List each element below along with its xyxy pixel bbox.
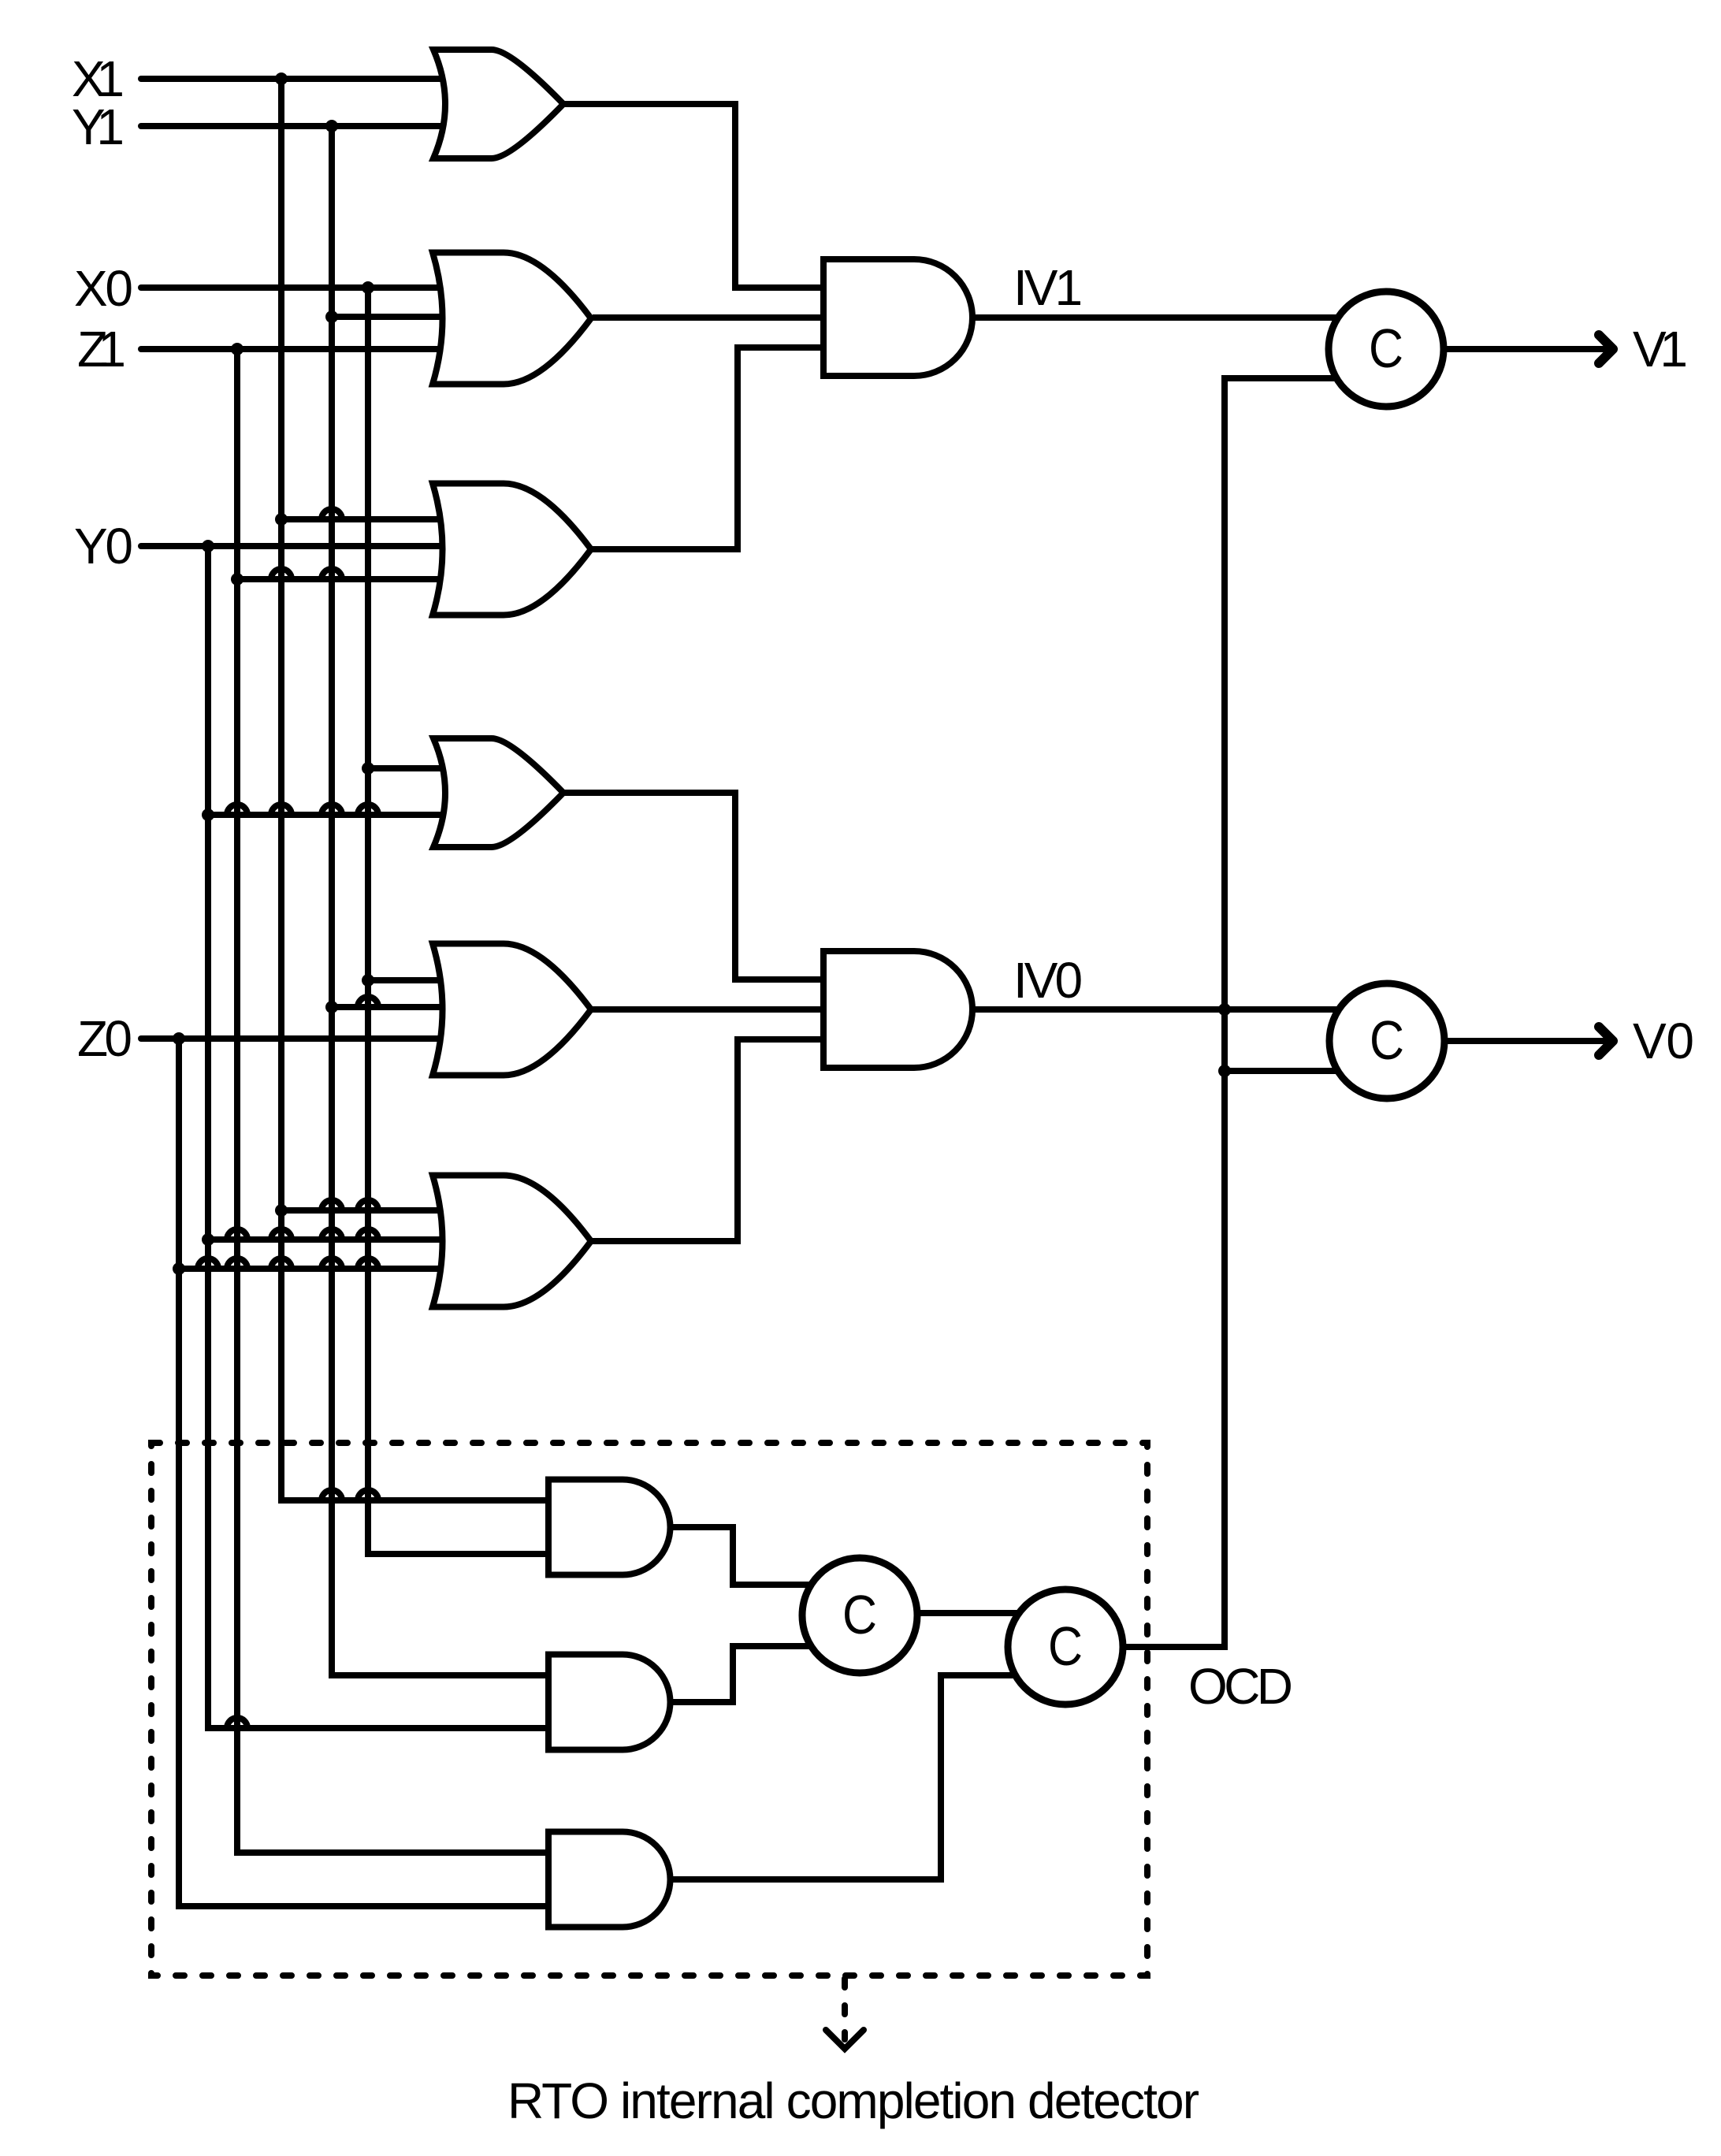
wire hop at x=421 y=1034 bbox=[322, 805, 342, 815]
c-element C2 (V0) bbox=[1329, 983, 1444, 1098]
node junction at 264,1034 bbox=[202, 808, 214, 821]
wire hop at x=421 y=1610 bbox=[322, 1258, 342, 1269]
svg-text:C: C bbox=[1048, 1615, 1083, 1677]
wire Y0 input line bbox=[141, 543, 473, 549]
wire X0 input line bbox=[141, 284, 473, 291]
svg-text:X0: X0 bbox=[74, 260, 133, 317]
wire OR2 output through AND U1 to C element, net IV1 bbox=[593, 314, 1344, 321]
wire Z0 branch to OR6 input bbox=[179, 1266, 473, 1272]
wire OR4 output to AND U2 top input bbox=[564, 793, 835, 979]
or-gate OR6 (X1+Y0+Z0) bbox=[433, 1176, 591, 1307]
wire Z1 input line bbox=[141, 346, 473, 352]
c-element C1 (V1) bbox=[1329, 292, 1444, 407]
and-gate U2 (IV0) bbox=[823, 951, 972, 1068]
wire X0 vertical bus to detector AND a1 input bbox=[368, 288, 559, 1554]
node junction at 357,1536 bbox=[275, 1204, 288, 1217]
svg-text:V1: V1 bbox=[1633, 321, 1688, 377]
wire hop at x=467 y=1610 bbox=[358, 1258, 378, 1269]
node junction at 467,365 bbox=[362, 281, 374, 294]
wire V1 output arrow bbox=[1447, 335, 1613, 363]
wire Y1 branch to OR2 input bbox=[332, 314, 473, 320]
wire hop at x=357 y=1034 bbox=[271, 805, 292, 815]
wire hop at x=467 y=1278 bbox=[358, 997, 378, 1007]
node junction at 421,402 bbox=[325, 310, 338, 323]
node junction at 1554,1359 bbox=[1218, 1065, 1231, 1077]
wire X0 branch to OR5 input bbox=[368, 977, 473, 983]
wire OCD feedback stub into C element C2 bbox=[1225, 1068, 1344, 1074]
wire hop at x=357 y=1573 bbox=[271, 1229, 292, 1240]
wire Z0 vertical bus to detector AND a3 input bbox=[179, 1039, 559, 1906]
wire hop at x=357 y=1610 bbox=[271, 1258, 292, 1269]
wire hop at x=421 y=659 bbox=[322, 509, 342, 519]
node junction at 357,659 bbox=[275, 513, 288, 526]
wire AND D1 output to C element C3 top input bbox=[669, 1527, 820, 1585]
svg-text:Y1: Y1 bbox=[72, 99, 125, 155]
c-element C3 bbox=[802, 1558, 917, 1673]
wire Y0 vertical bus to detector AND a2 input bbox=[208, 546, 559, 1728]
svg-text:Z1: Z1 bbox=[77, 321, 126, 377]
wire hop at x=421 y=1904 bbox=[322, 1490, 342, 1500]
c-element C4 bbox=[1008, 1589, 1123, 1704]
wire Y1 vertical bus to detector AND a2 input bbox=[332, 126, 559, 1675]
wire hop at x=301 y=1610 bbox=[227, 1258, 247, 1269]
wire Z0 input line bbox=[141, 1035, 473, 1042]
wire hop at x=301 y=1034 bbox=[227, 805, 247, 815]
svg-text:C: C bbox=[1369, 318, 1403, 379]
wire X0 branch to OR4 input bbox=[368, 765, 473, 771]
node junction at 421,1278 bbox=[325, 1001, 338, 1013]
wire hop at x=301 y=2193 bbox=[227, 1718, 247, 1728]
svg-text:OCD: OCD bbox=[1188, 1658, 1293, 1715]
wire OCD feedback from C4 up to C1 lower input bbox=[1119, 378, 1344, 1647]
node junction at 264,1573 bbox=[202, 1233, 214, 1246]
wire hop at x=421 y=1536 bbox=[322, 1200, 342, 1210]
svg-text:C: C bbox=[842, 1584, 877, 1645]
wire hop at x=421 y=735 bbox=[322, 569, 342, 579]
or-gate OR5 (X0+Y1+Z0) bbox=[433, 944, 591, 1076]
wire Y1 input line bbox=[141, 123, 473, 129]
wire OR6 output to AND U2 bottom input bbox=[593, 1039, 835, 1241]
wire C element C3 output to C element C4 input bbox=[867, 1610, 1024, 1616]
wire AND D2 output to C element C3 bottom input bbox=[669, 1646, 820, 1702]
wire hop at x=467 y=1034 bbox=[358, 805, 378, 815]
wire Y0 branch to OR4 input bbox=[208, 812, 473, 818]
node junction at 301,443 bbox=[231, 343, 243, 355]
wire X1 vertical bus to detector AND a1 input bbox=[281, 79, 559, 1500]
wire hop at x=301 y=1573 bbox=[227, 1229, 247, 1240]
wire Y1 branch to OR5 input bbox=[332, 1004, 473, 1010]
wire Z1 branch to OR3 input bbox=[237, 576, 473, 582]
wire hop at x=264 y=1610 bbox=[198, 1258, 218, 1269]
or-gate OR1 (X1+Y1) bbox=[433, 50, 563, 158]
wire X1 branch to OR6 input bbox=[281, 1207, 473, 1214]
node junction at 301,735 bbox=[231, 573, 243, 585]
dashed arrow below box bbox=[826, 1979, 864, 2049]
wire OR1 output to AND U1 top input bbox=[563, 104, 835, 288]
wire V0 output arrow bbox=[1448, 1027, 1613, 1055]
svg-text:IV0: IV0 bbox=[1013, 952, 1081, 1009]
wire OR5 output through AND U2 to C element, net IV0 bbox=[593, 1006, 1344, 1013]
node junction at 227,1610 bbox=[173, 1262, 185, 1275]
svg-text:Z0: Z0 bbox=[77, 1010, 132, 1067]
and-gate D1 (X1.X0) bbox=[548, 1480, 671, 1575]
wire X1 branch to OR3 input bbox=[281, 516, 473, 522]
svg-text:IV1: IV1 bbox=[1013, 259, 1080, 316]
node junction at 357,100 bbox=[275, 72, 288, 85]
and-gate D2 (Y1.Y0) bbox=[548, 1655, 671, 1750]
node junction at 227,1318 bbox=[173, 1032, 185, 1045]
or-gate OR3 (X1+Y0+Z1) bbox=[433, 484, 591, 615]
wire Y0 branch to OR6 input bbox=[208, 1236, 473, 1243]
node junction at 467,975 bbox=[362, 762, 374, 775]
wire hop at x=357 y=735 bbox=[271, 569, 292, 579]
wire hop at x=467 y=1536 bbox=[358, 1200, 378, 1210]
svg-text:RTO internal completion detect: RTO internal completion detector bbox=[507, 2072, 1199, 2129]
wire hop at x=467 y=1904 bbox=[358, 1490, 378, 1500]
and-gate D3 (Z1.Z0) bbox=[548, 1832, 671, 1927]
node junction at 467,1244 bbox=[362, 974, 374, 987]
dashed box: RTO internal completion detector boundary bbox=[151, 1443, 1147, 1976]
node junction at 1554,1281 bbox=[1218, 1003, 1231, 1016]
or-gate OR2 (X0+Y1+Z1) bbox=[433, 253, 591, 385]
or-gate OR4 (X0+Y0) bbox=[433, 738, 563, 847]
wire hop at x=467 y=1573 bbox=[358, 1229, 378, 1240]
node junction at 421,160 bbox=[325, 120, 338, 132]
wire hop at x=421 y=1573 bbox=[322, 1229, 342, 1240]
and-gate U1 (IV1) bbox=[823, 259, 972, 376]
wire AND D3 output to C element C4 bottom input bbox=[669, 1675, 1024, 1879]
wire OR3 output to AND U1 bottom input bbox=[593, 348, 835, 549]
wire Z1 vertical bus to detector AND a3 input bbox=[237, 349, 559, 1853]
svg-text:V0: V0 bbox=[1633, 1013, 1694, 1069]
svg-text:Y0: Y0 bbox=[74, 518, 133, 574]
wire X1 input line bbox=[141, 76, 473, 82]
node junction at 264,693 bbox=[202, 540, 214, 552]
svg-text:C: C bbox=[1370, 1009, 1404, 1071]
